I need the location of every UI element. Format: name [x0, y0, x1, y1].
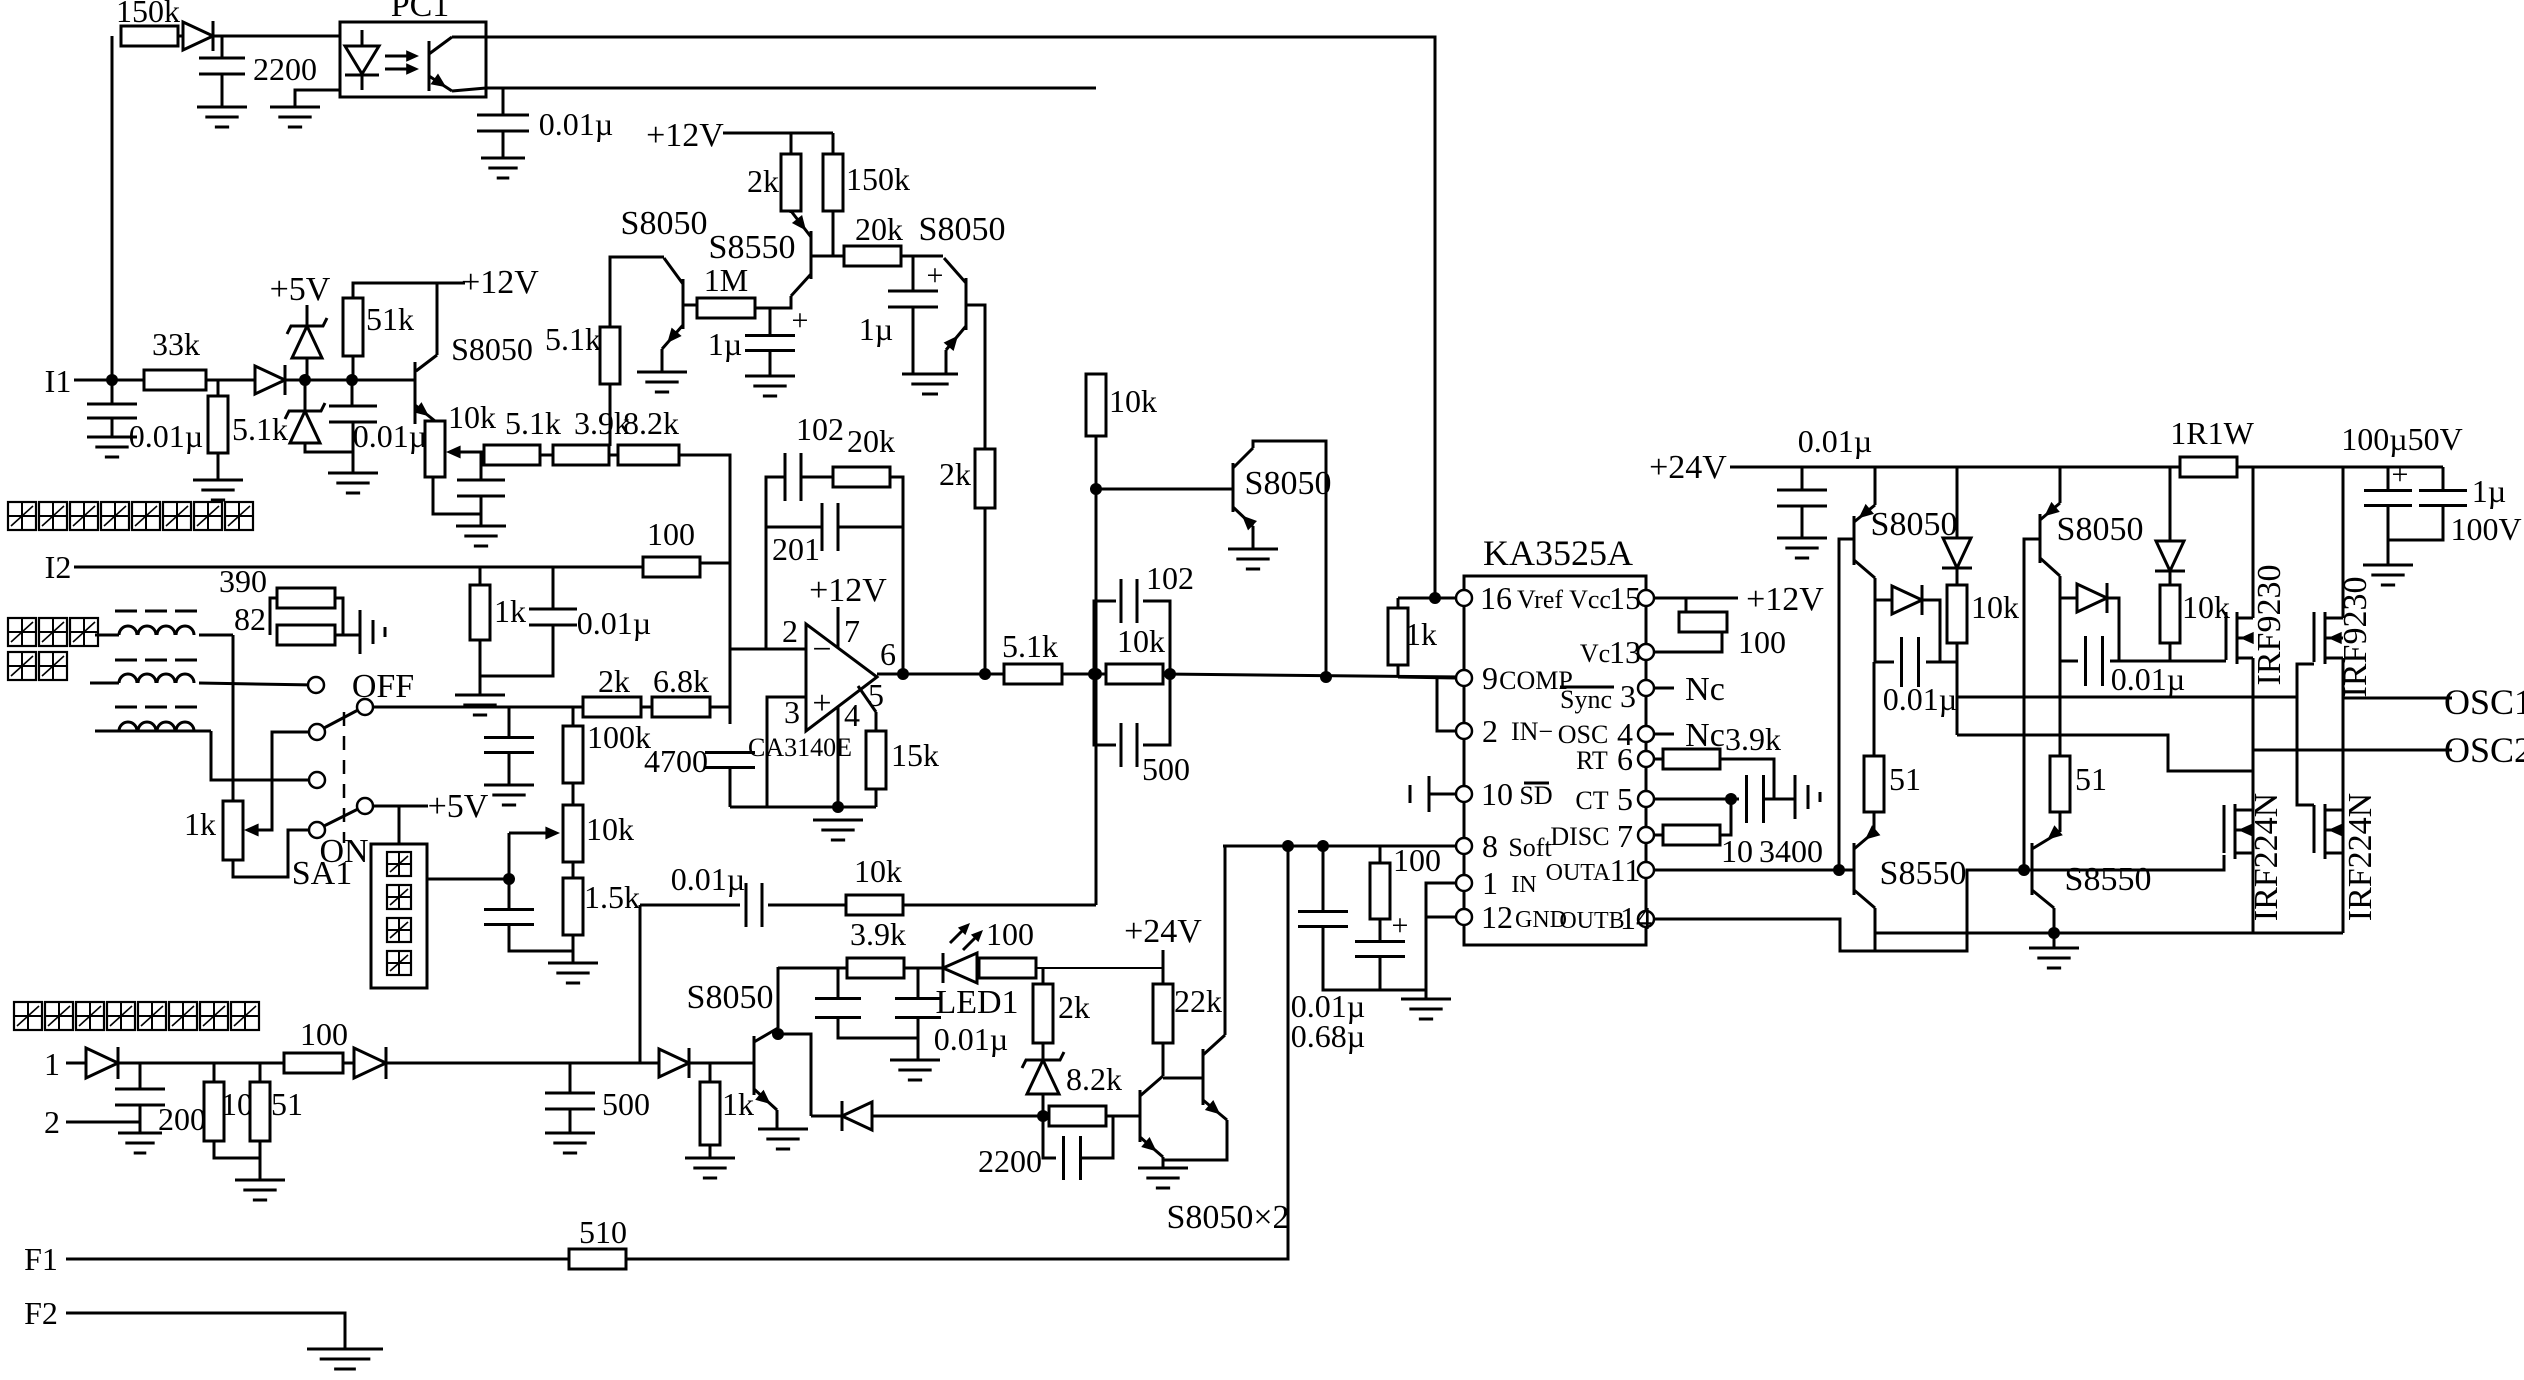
wire 102 branch right	[1143, 601, 1170, 674]
wire output ground rail	[1875, 932, 2343, 935]
wire cross line	[1957, 735, 2252, 771]
wire IRF9230L drain	[2252, 658, 2255, 933]
svg-text:0.68µ: 0.68µ	[1291, 1018, 1365, 1054]
switch SA1 pivot lower	[357, 798, 373, 814]
ground follower S8050no1	[637, 372, 687, 392]
resistor 10 (DISC)	[1663, 825, 1720, 845]
label 外调节	[8, 618, 98, 646]
capacitor 0.01u (soft pin8)	[1291, 912, 1365, 1025]
wire 1u100 stem	[2442, 467, 2445, 490]
wire railA diode stem	[1956, 467, 1959, 538]
wire 500 branch	[1094, 674, 1116, 745]
resistor 2k (vertical mid)	[939, 449, 995, 508]
wire pin8 lead	[1223, 845, 1456, 848]
capacitor 1u (follower left)	[708, 304, 809, 362]
wire I1 line to zener2	[304, 380, 307, 411]
svg-text:F2: F2	[24, 1295, 58, 1331]
label 100 LED	[986, 916, 1034, 952]
wire 1k stem (I2)	[479, 567, 482, 585]
wire 2200 to ground	[221, 74, 224, 107]
svg-text:6: 6	[880, 636, 896, 672]
label I1	[45, 363, 72, 399]
svg-text:0.01µ: 0.01µ	[671, 861, 745, 897]
switch SA1 dashed link	[292, 712, 352, 892]
wire 8.2k to op-amp rail	[679, 455, 730, 563]
wire 0.68u stem	[1379, 919, 1382, 941]
wire cap200 gnd	[139, 1105, 142, 1133]
svg-text:100: 100	[1738, 624, 1786, 660]
resistor 3.9k (RT)	[1663, 749, 1720, 769]
potentiometer 1k	[184, 801, 243, 860]
wire collector to lower line	[778, 1034, 811, 1116]
transistor S8050 driver A	[1854, 504, 1957, 578]
svg-text:102: 102	[796, 411, 844, 447]
label +24V (rail)	[1649, 449, 1727, 486]
svg-text:OSC2: OSC2	[2444, 730, 2524, 770]
ground below 1.5k	[548, 963, 598, 983]
label 20k (follower)	[855, 211, 903, 247]
svg-text:Sync: Sync	[1560, 685, 1612, 714]
svg-text:+5V: +5V	[270, 271, 331, 308]
resistor 5.1k (vertical, I1)	[208, 396, 288, 453]
svg-text:IRF9230: IRF9230	[2251, 565, 2288, 686]
svg-text:SA1: SA1	[292, 855, 352, 892]
wire S8550 base to 20k	[833, 255, 844, 258]
wire cap to ground join	[352, 422, 355, 473]
resistor 1.5k	[563, 878, 640, 935]
svg-text:F1: F1	[24, 1241, 58, 1277]
svg-text:Vc: Vc	[1580, 639, 1610, 668]
capacitor 0.01u (+24V)	[1777, 423, 1872, 506]
wire 390 right stem	[335, 598, 343, 635]
svg-text:S8050: S8050	[1245, 465, 1332, 502]
wire r10 r51 bottom	[214, 1141, 260, 1158]
node I1-150k junction	[106, 374, 118, 386]
wire 100k stem	[572, 707, 575, 726]
svg-text:S8050: S8050	[621, 205, 708, 242]
svg-text:1µ: 1µ	[2472, 473, 2506, 509]
svg-text:S8050: S8050	[919, 211, 1006, 248]
zener diode upper (+5V)	[287, 318, 327, 358]
diode D10 (rail B)	[2155, 541, 2185, 571]
wire 2k stem (LED)	[1042, 968, 1045, 984]
svg-text:Vcc: Vcc	[1569, 585, 1611, 614]
wire 10kB down	[2169, 643, 2172, 661]
wire OUTA	[1654, 869, 1854, 872]
label +24V (LED)	[1124, 913, 1202, 950]
svg-text:150k: 150k	[846, 161, 910, 197]
zener diode lower	[285, 403, 325, 443]
resistor 2k (LED)	[1033, 984, 1090, 1043]
pin 5 CT	[1575, 781, 1654, 817]
wire bottom rail	[730, 806, 876, 809]
potentiometer 10k wiper arrow	[446, 446, 484, 459]
wire 5.1k down to chain	[609, 384, 612, 446]
inductor coil no.2 with dashed core	[90, 660, 316, 685]
switch SA1 contact 2	[309, 724, 325, 740]
resistor 6.8k	[652, 663, 710, 717]
svg-text:4700: 4700	[644, 743, 708, 779]
svg-text:100k: 100k	[587, 719, 651, 755]
wire d7 out	[1922, 600, 1940, 662]
pin 16 Vref	[1456, 580, 1563, 616]
optocoupler PC1 phototransistor	[429, 37, 452, 91]
resistor 1k (detect)	[700, 1082, 754, 1145]
IC U2 KA3525A box	[1464, 533, 1646, 945]
switch SA1 pivot upper	[357, 699, 373, 715]
resistor 3.9k (chain)	[553, 405, 630, 465]
wire 51k bottom	[352, 356, 355, 380]
svg-text:2k: 2k	[747, 163, 779, 199]
pin 1 IN	[1456, 865, 1537, 901]
svg-text:IN−: IN−	[1511, 717, 1553, 746]
svg-text:2200: 2200	[253, 51, 317, 87]
wire cap 0.01u stem (PC1)	[502, 88, 505, 115]
svg-text:2: 2	[782, 613, 798, 649]
wire +5V to zener	[306, 305, 309, 326]
wire 8.2k to Q1	[1106, 1115, 1140, 1118]
label OSC2	[2444, 730, 2524, 770]
wire soft cap bottom	[1323, 927, 1426, 990]
svg-text:S8050: S8050	[2057, 511, 2144, 548]
svg-text:1k: 1k	[722, 1086, 754, 1122]
wire contact2 to wiper	[250, 732, 309, 830]
switch lever lower	[324, 809, 358, 826]
svg-text:1µ: 1µ	[708, 326, 742, 362]
diode D9 (cell B)	[2077, 583, 2107, 613]
resistor 150k (top left)	[116, 0, 180, 46]
svg-text:10k: 10k	[1971, 589, 2019, 625]
wire 1k to ground	[479, 640, 482, 695]
svg-text:390: 390	[219, 563, 267, 599]
optocoupler PC1 LED	[345, 30, 379, 90]
wire S8550A collector	[1874, 908, 1877, 951]
svg-text:Soft: Soft	[1508, 833, 1552, 862]
wire cellB bottom right	[2110, 660, 2222, 663]
wire 201 left	[766, 526, 822, 529]
capacitor 500 (detect)	[545, 1086, 650, 1122]
node Vref junction	[1429, 592, 1441, 604]
ground below 2200	[197, 107, 247, 127]
svg-text:5: 5	[1617, 781, 1633, 817]
resistor 2k (switch)	[583, 663, 641, 717]
svg-text:3: 3	[1620, 678, 1636, 714]
wire chain 2	[609, 454, 618, 457]
wire lower line a	[811, 1115, 842, 1118]
wire zener2 to cap join	[305, 443, 353, 452]
label 3.9k LED	[850, 916, 906, 952]
switch SA1 contact 3	[309, 772, 325, 788]
svg-text:+12V: +12V	[809, 572, 887, 609]
ground cap509	[484, 785, 534, 805]
label LED1	[935, 984, 1018, 1021]
label 8.2k clamp	[1066, 1061, 1122, 1097]
MOSFET IRF224N left	[2224, 804, 2253, 859]
svg-text:5.1k: 5.1k	[1002, 628, 1058, 664]
capacitor 2200	[199, 51, 317, 87]
svg-text:100V: 100V	[2450, 511, 2521, 547]
svg-text:IRF224N: IRF224N	[2342, 793, 2379, 921]
svg-text:13: 13	[1609, 634, 1641, 670]
wire OSC1	[2343, 697, 2452, 700]
wire clamp emitter	[1252, 526, 1255, 549]
wire osc nc	[1654, 733, 1674, 736]
ground cap200	[118, 1133, 162, 1153]
wire cap500 stem	[569, 1063, 572, 1093]
diode D2 on I1 line	[255, 365, 285, 395]
capacitor 0.01u a (LED)	[815, 999, 861, 1018]
svg-text:+: +	[812, 685, 831, 722]
wire Vref node	[1398, 597, 1456, 600]
svg-text:0.01µ: 0.01µ	[577, 605, 651, 641]
wire r51 bottom	[259, 1141, 262, 1180]
diode D4 (lower line)	[842, 1101, 872, 1131]
wire 0.01u stem (I2)	[552, 567, 555, 609]
svg-text:S8050: S8050	[451, 331, 533, 367]
wire F1 right	[626, 846, 1288, 1259]
wire PC1 LED cathode to ground	[295, 90, 340, 107]
capacitor 2200 (clamp)	[978, 1136, 1081, 1180]
svg-text:1R1W: 1R1W	[2170, 415, 2254, 451]
wire lower line b	[872, 1115, 1049, 1118]
ground below I1 cap	[87, 437, 137, 457]
svg-text:7: 7	[1617, 818, 1633, 854]
resistor 10k (cell B)	[2160, 585, 2230, 643]
svg-text:15k: 15k	[891, 737, 939, 773]
svg-text:1: 1	[44, 1046, 60, 1082]
wire driverA base column	[1839, 539, 1854, 870]
svg-text:LED1: LED1	[935, 984, 1018, 1021]
wire d10 to 10k	[2169, 571, 2172, 585]
svg-text:10: 10	[221, 1086, 253, 1122]
capacitor 102 (feedback)	[785, 411, 844, 501]
svg-text:10k: 10k	[1109, 383, 1157, 419]
ground follower right	[902, 374, 958, 394]
wire rail b	[2237, 466, 2443, 469]
wire soft to PC1 rail	[903, 904, 1096, 907]
svg-text:100: 100	[647, 516, 695, 552]
svg-text:3.9k: 3.9k	[850, 916, 906, 952]
label IRF9230 left	[2251, 565, 2288, 686]
ground LED S8050	[758, 1129, 808, 1149]
svg-text:10k: 10k	[1117, 623, 1165, 659]
wire cap to ground	[480, 496, 483, 526]
resistor 1R1W	[2170, 415, 2254, 477]
svg-text:100: 100	[1393, 842, 1441, 878]
label 10k soft	[854, 853, 902, 889]
LED1 light arrows	[950, 923, 983, 950]
svg-text:3400: 3400	[1759, 833, 1823, 869]
wire cap 0.01u stem I1	[111, 380, 114, 403]
wire RT lead	[1654, 758, 1663, 761]
svg-text:8.2k: 8.2k	[1066, 1061, 1122, 1097]
wire soft line left	[640, 904, 740, 907]
wire soft mid	[768, 904, 846, 907]
wire IRF9230R source col	[2342, 467, 2345, 618]
resistor 8.2k (chain)	[618, 405, 679, 465]
diode D3 (detect)	[659, 1048, 689, 1078]
label 焊接电流反馈信号	[8, 502, 253, 530]
svg-text:8.2k: 8.2k	[623, 405, 679, 441]
wire cap200 stem	[139, 1063, 142, 1089]
svg-text:0.01µ: 0.01µ	[539, 106, 613, 142]
resistor 1M	[697, 262, 755, 318]
resistor 100 (I2)	[643, 516, 700, 577]
transistor S8550 (follower)	[709, 211, 811, 296]
node comp join	[1320, 671, 1332, 683]
label IRF224N right	[2342, 793, 2379, 921]
svg-text:20k: 20k	[847, 423, 895, 459]
svg-text:6: 6	[1617, 741, 1633, 777]
wire cap pair stem b	[917, 968, 920, 998]
wire emitterB to diode	[2060, 597, 2077, 600]
wire S8050no1 base	[683, 304, 697, 307]
wire 0.68u bottom	[1379, 957, 1382, 990]
ground below PC1 pin2	[270, 107, 320, 127]
wire r10 top	[213, 1063, 216, 1082]
label 10 (DISC)	[1721, 833, 1753, 869]
svg-text:S8050: S8050	[687, 979, 774, 1016]
svg-text:0.01µ: 0.01µ	[1798, 423, 1872, 459]
svg-text:33k: 33k	[152, 326, 200, 362]
svg-text:S8550: S8550	[2065, 861, 2152, 898]
node op-amp ground	[832, 801, 844, 813]
svg-text:S8050×2: S8050×2	[1166, 1199, 1289, 1236]
wire gnd stem right	[2053, 933, 2056, 948]
node soft F1 junction	[1282, 840, 1294, 852]
wire Q2 emitter	[1163, 1120, 1227, 1160]
potentiometer 10k (meter)	[563, 805, 634, 862]
chassis ground (390/82)	[360, 610, 385, 654]
wire 100u stem	[2387, 467, 2390, 490]
wire 3.9k to LED	[904, 967, 943, 970]
label OSC1	[2444, 682, 2524, 722]
capacitor 0.01u (cell A)	[1883, 637, 1957, 717]
svg-text:15: 15	[1609, 580, 1641, 616]
svg-text:0.01µ: 0.01µ	[1883, 681, 1957, 717]
wire CT to chassis	[1764, 798, 1795, 801]
ground below zener/cap	[328, 473, 378, 493]
svg-text:4: 4	[844, 697, 860, 733]
svg-text:SD: SD	[1519, 781, 1552, 810]
svg-text:200: 200	[158, 1101, 206, 1137]
resistor 100 (detect)	[284, 1053, 343, 1073]
diode D7 (cell A)	[1892, 585, 1922, 615]
ground F2	[307, 1349, 383, 1369]
resistor 51 (cell B)	[2050, 756, 2107, 812]
pin 11 OUTA	[1546, 852, 1654, 888]
label Nc (sync)	[1685, 671, 1725, 708]
chassis ground (CT)	[1795, 775, 1820, 819]
switch SA1 contact OFF	[308, 668, 414, 705]
svg-text:10k: 10k	[2182, 589, 2230, 625]
ground Q1	[1138, 1168, 1188, 1188]
wire 82 to chassis	[335, 634, 360, 637]
label F1	[24, 1241, 58, 1277]
node CT disc	[1725, 793, 1737, 805]
svg-text:1k: 1k	[1405, 616, 1437, 652]
wire 20k to right rail	[890, 477, 903, 674]
wire gate 9230L	[2222, 660, 2226, 663]
wire driverB base	[2024, 539, 2040, 870]
wire 100 stem b	[1654, 631, 1722, 652]
label 4700	[644, 743, 708, 779]
transistor S8550 B (lower)	[2032, 825, 2151, 908]
svg-text:S8550: S8550	[1880, 855, 1967, 892]
wire meter node vertical	[508, 833, 511, 909]
wire S8550B collector	[2053, 908, 2056, 933]
wire 0.01u24 gnd	[1801, 506, 1804, 538]
svg-text:5.1k: 5.1k	[545, 321, 601, 357]
wire IRF9230R drain	[2342, 658, 2345, 933]
resistor 1k (I2)	[470, 585, 526, 640]
svg-text:11: 11	[1610, 852, 1641, 888]
svg-text:2200: 2200	[978, 1143, 1042, 1179]
ground below 1k I2	[455, 695, 505, 715]
wire 201 right	[838, 526, 903, 529]
pin 14 OUTB	[1559, 900, 1654, 936]
wire soft caps stem	[1322, 846, 1325, 911]
wire op-amp output	[877, 673, 1004, 676]
wire capb bottom	[917, 1018, 920, 1038]
wire d6 to 500	[386, 1062, 640, 1065]
wire pin3 box	[767, 697, 806, 807]
resistor 10k (output)	[1106, 623, 1165, 684]
svg-text:0.01µ: 0.01µ	[129, 418, 203, 454]
svg-text:10k: 10k	[586, 811, 634, 847]
optocoupler PC1 light arrows	[385, 50, 419, 74]
wire pin4 stem	[837, 700, 840, 807]
svg-text:500: 500	[602, 1086, 650, 1122]
pin 13 Vc	[1580, 634, 1654, 670]
wire COMP to pin9	[1398, 677, 1456, 678]
label +12V (follower)	[646, 117, 724, 154]
wire 100 to d6	[343, 1062, 354, 1065]
wire 10kA down	[1956, 643, 1959, 735]
resistor 10k (from PC1)	[1086, 374, 1157, 436]
label I2	[45, 549, 72, 585]
svg-text:5: 5	[868, 677, 884, 713]
svg-text:I1: I1	[45, 363, 72, 399]
wire zener to line	[1042, 1094, 1045, 1116]
wire 1k pot bottom to ON contact	[233, 830, 309, 877]
node PC1 feedback join	[1090, 668, 1102, 680]
capacitor 0.01u (soft)	[671, 861, 762, 927]
svg-text:10: 10	[1481, 776, 1513, 812]
transistor S8050 (comp clamp)	[1233, 448, 1331, 530]
diode D5 (input 1)	[86, 1047, 118, 1079]
wire d9 out	[2107, 598, 2119, 661]
capacitor 3400 (CT)	[1747, 775, 1764, 823]
wire detect 2	[66, 1121, 140, 1124]
svg-text:+: +	[792, 304, 809, 337]
wire 0.01u24 stem	[1801, 467, 1804, 490]
svg-text:−: −	[812, 631, 831, 668]
wire 100 vert stem	[1379, 846, 1382, 863]
wire railB diode stem	[2169, 467, 2172, 541]
pin 3 Sync	[1560, 678, 1654, 714]
wire I1 line	[74, 379, 144, 382]
pin 6 RT	[1576, 741, 1654, 777]
transistor S8050 (LED driver)	[687, 979, 778, 1110]
wire caps join	[2388, 506, 2443, 540]
wire 5.1k to 10k	[1062, 673, 1106, 676]
wire driverA collector	[1874, 467, 1877, 505]
wire DISC up	[1720, 799, 1731, 835]
MOSFET IRF9230 left	[2226, 612, 2254, 664]
wire PC1 emitter to 10k line	[452, 88, 503, 91]
resistor 5.1k (follower)	[545, 321, 620, 384]
